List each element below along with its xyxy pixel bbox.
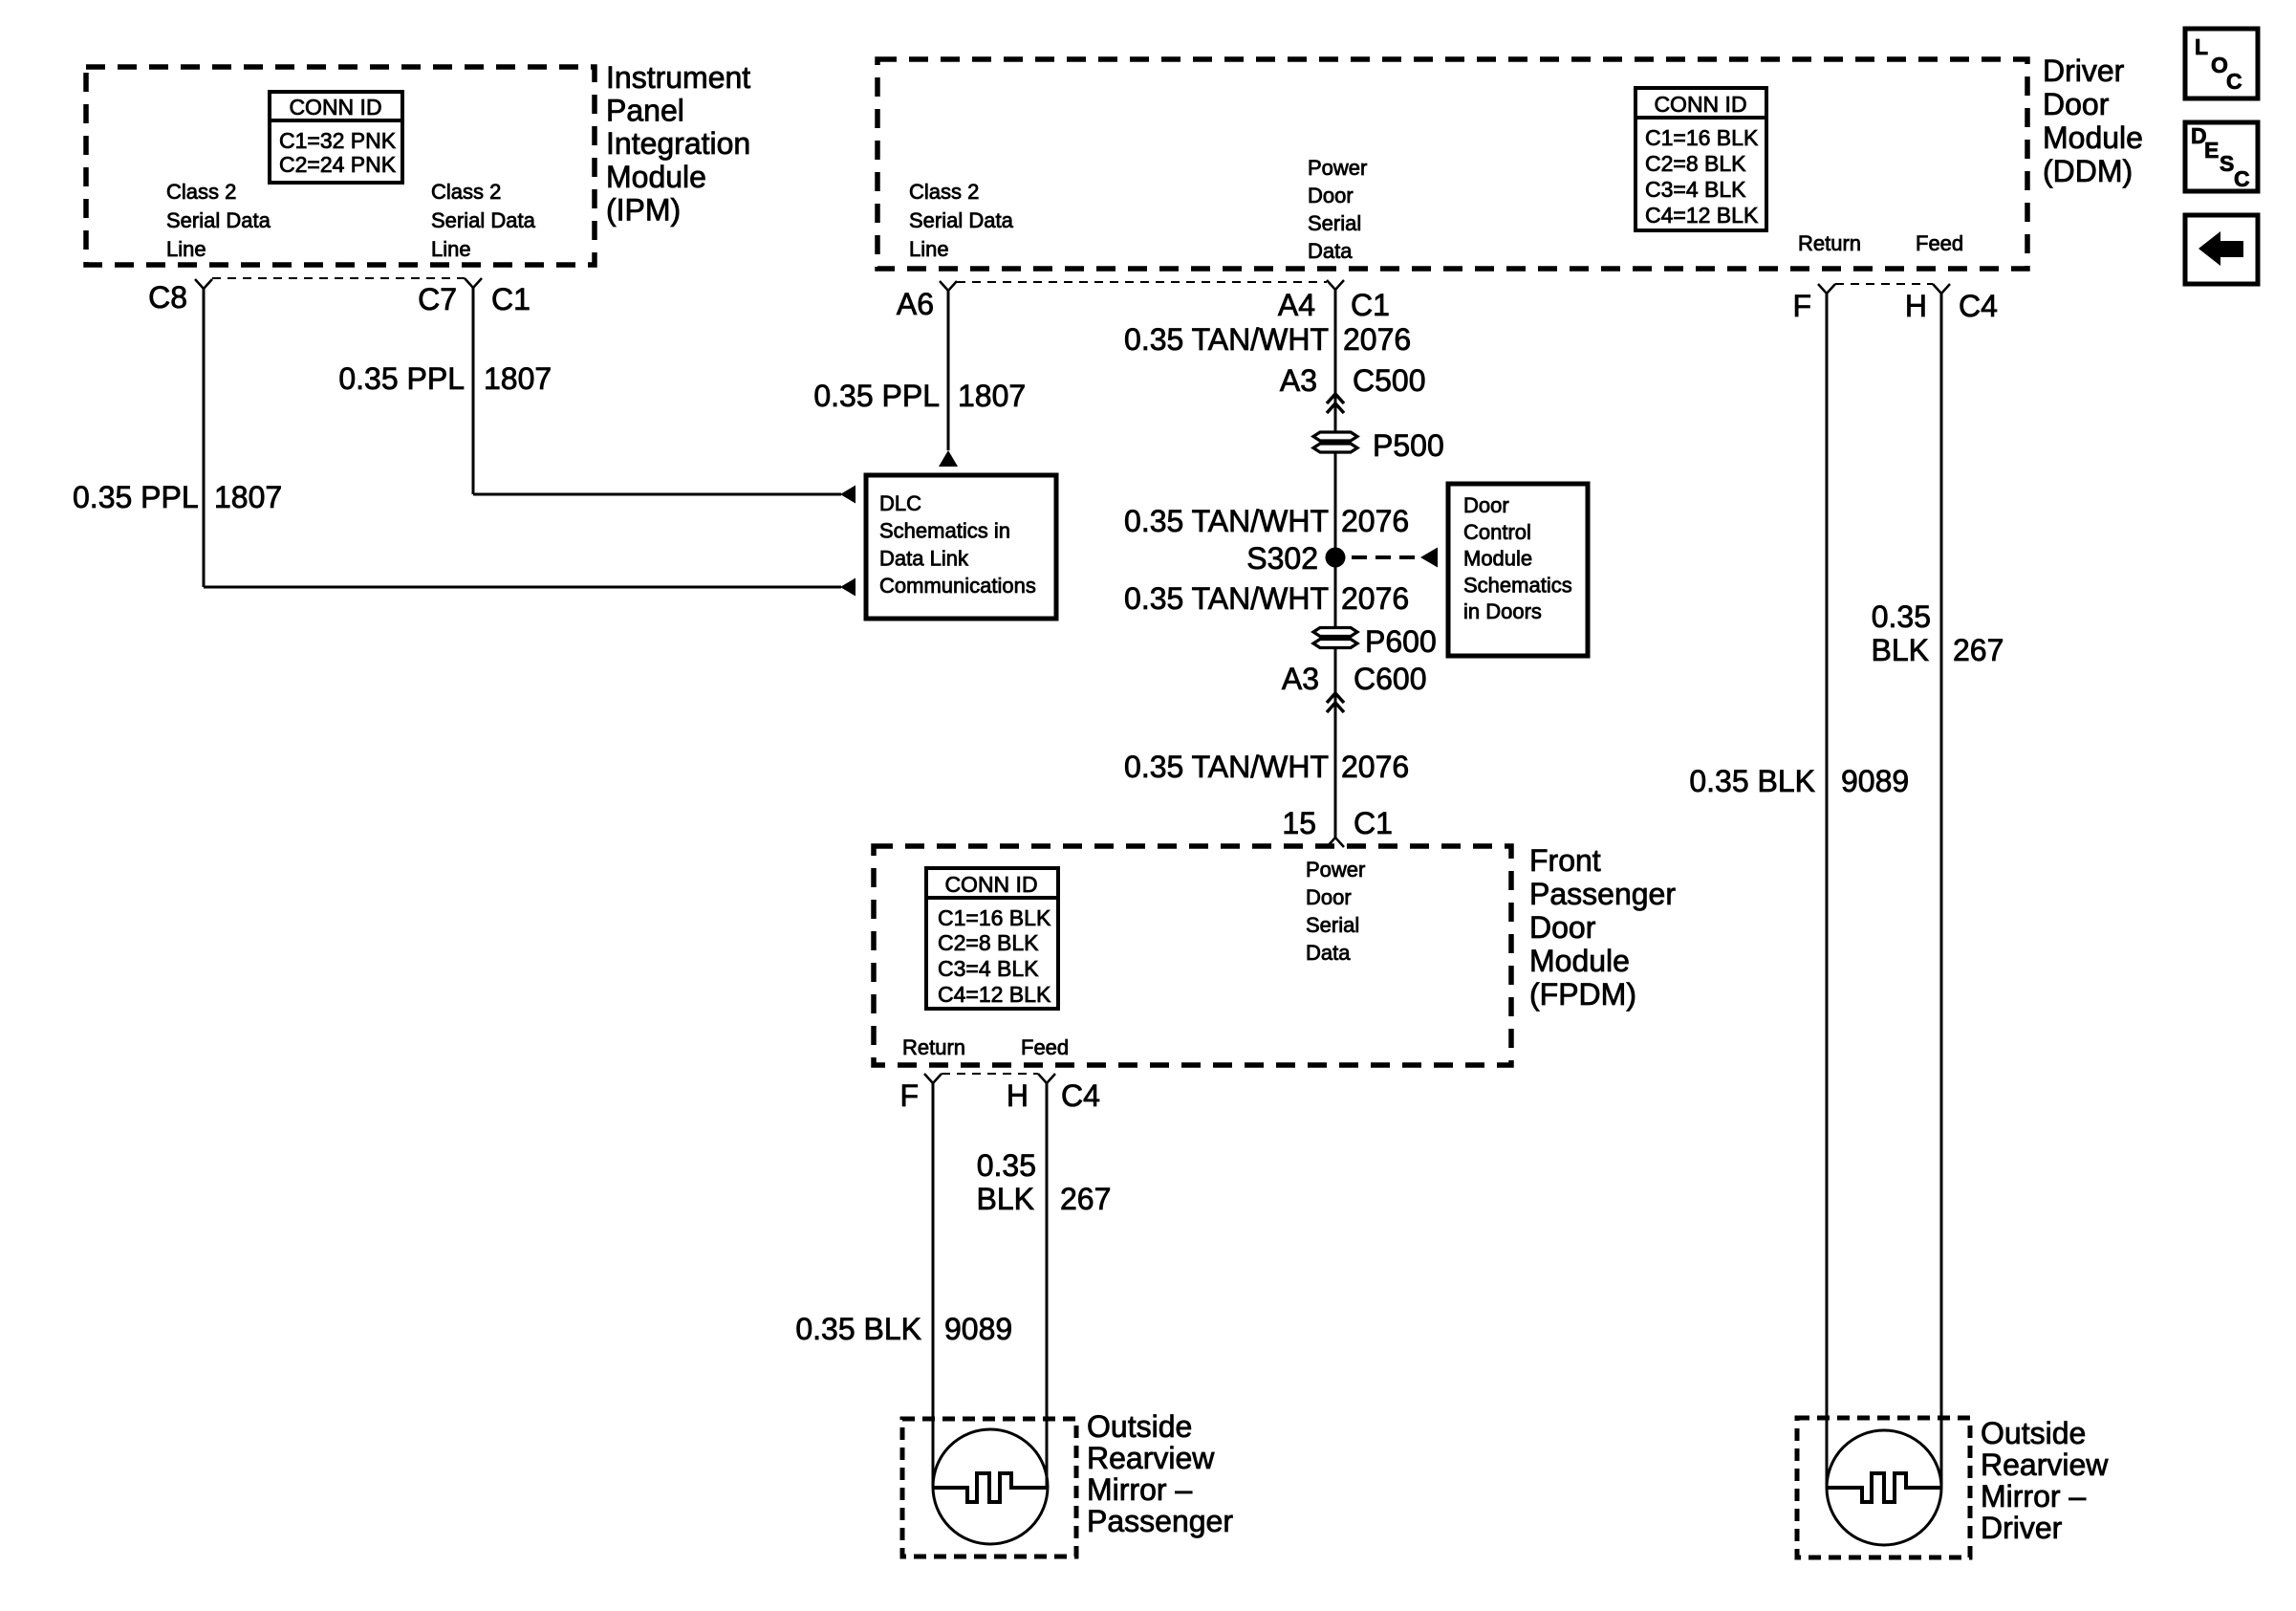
svg-text:0.35 TAN/WHT: 0.35 TAN/WHT xyxy=(1124,581,1329,616)
wire: DDM mirror return (F) xyxy=(1826,294,1829,1488)
svg-text:Return: Return xyxy=(902,1035,965,1059)
svg-text:Door: Door xyxy=(1463,493,1509,517)
back-arrow legend box xyxy=(2185,215,2258,284)
wire: C8 vertical segment xyxy=(203,289,206,587)
svg-text:0.35: 0.35 xyxy=(1872,599,1931,634)
svg-text:Door: Door xyxy=(1529,910,1596,945)
DDM CONN ID table box xyxy=(1635,88,1766,230)
module box: Instrument Panel Integration Module (IPM) xyxy=(86,67,595,265)
arrow into DLC box (top) xyxy=(939,450,958,467)
connector fork at DDM pin A4 xyxy=(1327,280,1344,290)
inline connector chevrons C600 xyxy=(1327,693,1344,703)
passenger mirror motor circle xyxy=(933,1429,1048,1544)
IPM CONN ID header divider xyxy=(270,119,402,122)
svg-text:2076: 2076 xyxy=(1341,504,1409,538)
svg-text:Module: Module xyxy=(1529,944,1630,978)
svg-text:C7: C7 xyxy=(418,282,457,316)
svg-text:Serial Data: Serial Data xyxy=(909,208,1014,232)
svg-text:Rearview: Rearview xyxy=(1981,1448,2109,1482)
svg-text:0.35 BLK: 0.35 BLK xyxy=(795,1312,921,1346)
svg-text:F: F xyxy=(899,1078,919,1113)
svg-text:S: S xyxy=(2220,151,2234,176)
svg-text:C2=8 BLK: C2=8 BLK xyxy=(1645,151,1746,176)
svg-text:CONN ID: CONN ID xyxy=(944,872,1037,897)
FPDM CONN ID table box xyxy=(926,868,1058,1009)
svg-text:Return: Return xyxy=(1798,231,1861,255)
svg-text:Power: Power xyxy=(1308,156,1367,180)
svg-text:Line: Line xyxy=(909,237,949,261)
svg-text:A4: A4 xyxy=(1278,288,1315,322)
wire: C7 vertical segment xyxy=(472,288,475,494)
splice S302 dot xyxy=(1326,548,1346,568)
svg-text:Line: Line xyxy=(166,237,206,261)
svg-text:C4: C4 xyxy=(1959,289,1998,323)
svg-text:in Doors: in Doors xyxy=(1463,599,1542,623)
svg-text:C1=16 BLK: C1=16 BLK xyxy=(938,905,1051,930)
svg-text:C600: C600 xyxy=(1354,662,1427,696)
svg-text:Class 2: Class 2 xyxy=(166,180,236,204)
svg-text:Driver: Driver xyxy=(1981,1511,2063,1545)
svg-text:C4=12 BLK: C4=12 BLK xyxy=(938,982,1051,1007)
pass-through grommet P500 xyxy=(1313,432,1357,441)
svg-text:Instrument: Instrument xyxy=(606,60,750,95)
wire: serial data vertical xyxy=(1334,290,1337,838)
svg-text:H: H xyxy=(1007,1078,1029,1113)
svg-text:(FPDM): (FPDM) xyxy=(1529,977,1636,1012)
svg-text:C: C xyxy=(2234,166,2250,191)
svg-text:F: F xyxy=(1792,289,1811,323)
thin dashed connector line (DDM C4) xyxy=(1835,283,1933,285)
wire: FPDM mirror return (F) xyxy=(932,1083,935,1488)
svg-text:C1: C1 xyxy=(1354,806,1393,840)
connector fork at FPDM pin H xyxy=(1038,1074,1055,1083)
svg-text:Door: Door xyxy=(1308,184,1354,207)
svg-text:C2=24 PNK: C2=24 PNK xyxy=(279,152,397,177)
connector fork at IPM pin C8 xyxy=(195,279,212,289)
svg-text:C1: C1 xyxy=(491,282,531,316)
thin dashed connector line (FPDM C4) xyxy=(942,1073,1038,1075)
svg-text:Rearview: Rearview xyxy=(1087,1441,1215,1475)
svg-text:Integration: Integration xyxy=(606,126,750,161)
module box: Driver Door Module (DDM) xyxy=(877,59,2027,269)
svg-text:Door: Door xyxy=(2043,87,2110,121)
svg-text:0.35: 0.35 xyxy=(977,1148,1036,1183)
connector fork at FPDM pin F xyxy=(924,1074,942,1083)
back-arrow glyph xyxy=(2199,231,2243,266)
svg-text:1807: 1807 xyxy=(214,480,282,514)
svg-text:Passenger: Passenger xyxy=(1529,877,1676,911)
Door Control Module reference box xyxy=(1448,484,1588,656)
svg-text:Module: Module xyxy=(2043,120,2143,155)
dashed reference line from S302 xyxy=(1352,555,1419,559)
svg-text:(DDM): (DDM) xyxy=(2043,154,2133,188)
component box: Outside Rearview Mirror - Passenger xyxy=(902,1419,1076,1557)
svg-text:Line: Line xyxy=(431,237,471,261)
svg-text:Data: Data xyxy=(1306,941,1351,965)
thin dashed connector line (IPM C1) xyxy=(212,277,465,279)
arrow into DLC box (lower) xyxy=(840,578,856,597)
pass-through grommet P600 xyxy=(1313,628,1357,637)
svg-text:267: 267 xyxy=(1060,1182,1111,1216)
passenger mirror resistive element xyxy=(933,1473,1047,1502)
connector fork at DDM pin F xyxy=(1818,284,1835,294)
svg-text:C4: C4 xyxy=(1061,1078,1100,1113)
wire: C7 horizontal segment to DLC xyxy=(473,493,841,496)
arrow into DLC box (upper) xyxy=(840,486,856,504)
connector fork at IPM pin C7 xyxy=(465,278,482,288)
component box: Outside Rearview Mirror - Driver xyxy=(1797,1418,1970,1557)
DDM CONN ID header divider xyxy=(1635,116,1766,120)
svg-text:Feed: Feed xyxy=(1916,231,1963,255)
svg-text:15: 15 xyxy=(1282,806,1316,840)
wire: C8 horizontal segment to DLC xyxy=(204,586,841,589)
svg-text:C4=12 BLK: C4=12 BLK xyxy=(1645,203,1759,228)
svg-text:CONN ID: CONN ID xyxy=(289,95,381,120)
LOC legend box xyxy=(2185,29,2258,98)
svg-text:C1=32 PNK: C1=32 PNK xyxy=(279,128,397,153)
svg-text:Control: Control xyxy=(1463,520,1531,544)
wire: DDM mirror feed (H) xyxy=(1940,294,1943,1488)
svg-text:A6: A6 xyxy=(897,287,934,321)
svg-text:C: C xyxy=(2226,69,2242,94)
svg-text:(IPM): (IPM) xyxy=(606,192,681,227)
svg-text:C8: C8 xyxy=(148,280,187,315)
svg-text:Passenger: Passenger xyxy=(1087,1504,1233,1538)
svg-text:C500: C500 xyxy=(1353,363,1426,398)
svg-text:Outside: Outside xyxy=(1981,1416,2086,1450)
wire: A6 vertical segment xyxy=(947,291,950,450)
svg-text:Driver: Driver xyxy=(2043,54,2125,88)
FPDM CONN ID header divider xyxy=(926,896,1058,900)
svg-text:Panel: Panel xyxy=(606,94,684,128)
svg-text:C1=16 BLK: C1=16 BLK xyxy=(1645,125,1759,150)
svg-text:0.35 TAN/WHT: 0.35 TAN/WHT xyxy=(1124,504,1329,538)
svg-text:Feed: Feed xyxy=(1021,1035,1069,1059)
svg-text:Schematics in: Schematics in xyxy=(879,519,1010,543)
svg-text:0.35 TAN/WHT: 0.35 TAN/WHT xyxy=(1124,750,1329,784)
arrow into Door Control Module box xyxy=(1420,548,1438,568)
svg-text:2076: 2076 xyxy=(1343,322,1411,357)
svg-text:2076: 2076 xyxy=(1341,750,1409,784)
svg-text:Outside: Outside xyxy=(1087,1409,1192,1444)
svg-text:0.35 PPL: 0.35 PPL xyxy=(338,361,465,396)
svg-text:267: 267 xyxy=(1953,633,2004,667)
svg-text:Power: Power xyxy=(1306,858,1365,882)
svg-text:Class 2: Class 2 xyxy=(909,180,979,204)
svg-text:9089: 9089 xyxy=(944,1312,1012,1346)
svg-text:Mirror –: Mirror – xyxy=(1981,1479,2086,1513)
connector fork into FPDM pin 15 xyxy=(1327,838,1344,847)
svg-text:C2=8 BLK: C2=8 BLK xyxy=(938,930,1039,955)
svg-text:Serial: Serial xyxy=(1308,211,1361,235)
svg-text:Front: Front xyxy=(1529,843,1601,878)
svg-text:Data: Data xyxy=(1308,239,1353,263)
svg-text:0.35 TAN/WHT: 0.35 TAN/WHT xyxy=(1124,322,1329,357)
svg-text:Serial Data: Serial Data xyxy=(166,208,271,232)
svg-text:P600: P600 xyxy=(1365,624,1437,659)
svg-text:2076: 2076 xyxy=(1341,581,1409,616)
IPM CONN ID table box xyxy=(270,92,402,183)
svg-text:1807: 1807 xyxy=(484,361,552,396)
svg-text:H: H xyxy=(1905,289,1927,323)
svg-text:P500: P500 xyxy=(1373,428,1444,463)
svg-text:A3: A3 xyxy=(1282,662,1319,696)
svg-text:Mirror –: Mirror – xyxy=(1087,1472,1192,1507)
connector fork at DDM pin A6 xyxy=(940,281,957,291)
inline connector chevrons C500 xyxy=(1327,394,1344,403)
driver mirror resistive element xyxy=(1828,1473,1941,1502)
svg-text:C3=4 BLK: C3=4 BLK xyxy=(1645,177,1746,202)
svg-text:1807: 1807 xyxy=(958,379,1026,413)
svg-text:A3: A3 xyxy=(1280,363,1317,398)
svg-text:BLK: BLK xyxy=(977,1182,1034,1216)
svg-text:E: E xyxy=(2204,138,2219,163)
svg-text:Module: Module xyxy=(606,160,706,194)
DESC legend box xyxy=(2185,122,2258,191)
driver mirror motor circle xyxy=(1827,1430,1941,1545)
svg-text:C1: C1 xyxy=(1351,288,1390,322)
svg-text:C3=4 BLK: C3=4 BLK xyxy=(938,956,1039,981)
thin dashed connector line (DDM C1 left) xyxy=(957,281,1327,283)
svg-text:9089: 9089 xyxy=(1841,764,1909,798)
DLC reference box xyxy=(866,475,1056,619)
svg-text:BLK: BLK xyxy=(1872,633,1929,667)
svg-text:Serial: Serial xyxy=(1306,913,1359,937)
svg-text:Module: Module xyxy=(1463,547,1532,571)
svg-text:DLC: DLC xyxy=(879,491,921,515)
svg-text:Schematics: Schematics xyxy=(1463,573,1572,597)
svg-text:Serial Data: Serial Data xyxy=(431,208,536,232)
svg-text:0.35 BLK: 0.35 BLK xyxy=(1689,764,1815,798)
svg-text:L: L xyxy=(2195,34,2208,59)
wire: FPDM mirror feed (H) xyxy=(1046,1083,1049,1488)
svg-text:CONN ID: CONN ID xyxy=(1654,92,1746,117)
svg-text:S302: S302 xyxy=(1246,541,1318,576)
svg-text:0.35 PPL: 0.35 PPL xyxy=(73,480,199,514)
svg-text:Data Link: Data Link xyxy=(879,546,969,570)
svg-text:Communications: Communications xyxy=(879,574,1036,598)
svg-text:0.35 PPL: 0.35 PPL xyxy=(813,379,940,413)
svg-text:Class 2: Class 2 xyxy=(431,180,501,204)
module box: Front Passenger Door Module (FPDM) xyxy=(874,846,1511,1065)
connector fork at DDM pin H xyxy=(1933,284,1950,294)
svg-text:Door: Door xyxy=(1306,885,1352,909)
